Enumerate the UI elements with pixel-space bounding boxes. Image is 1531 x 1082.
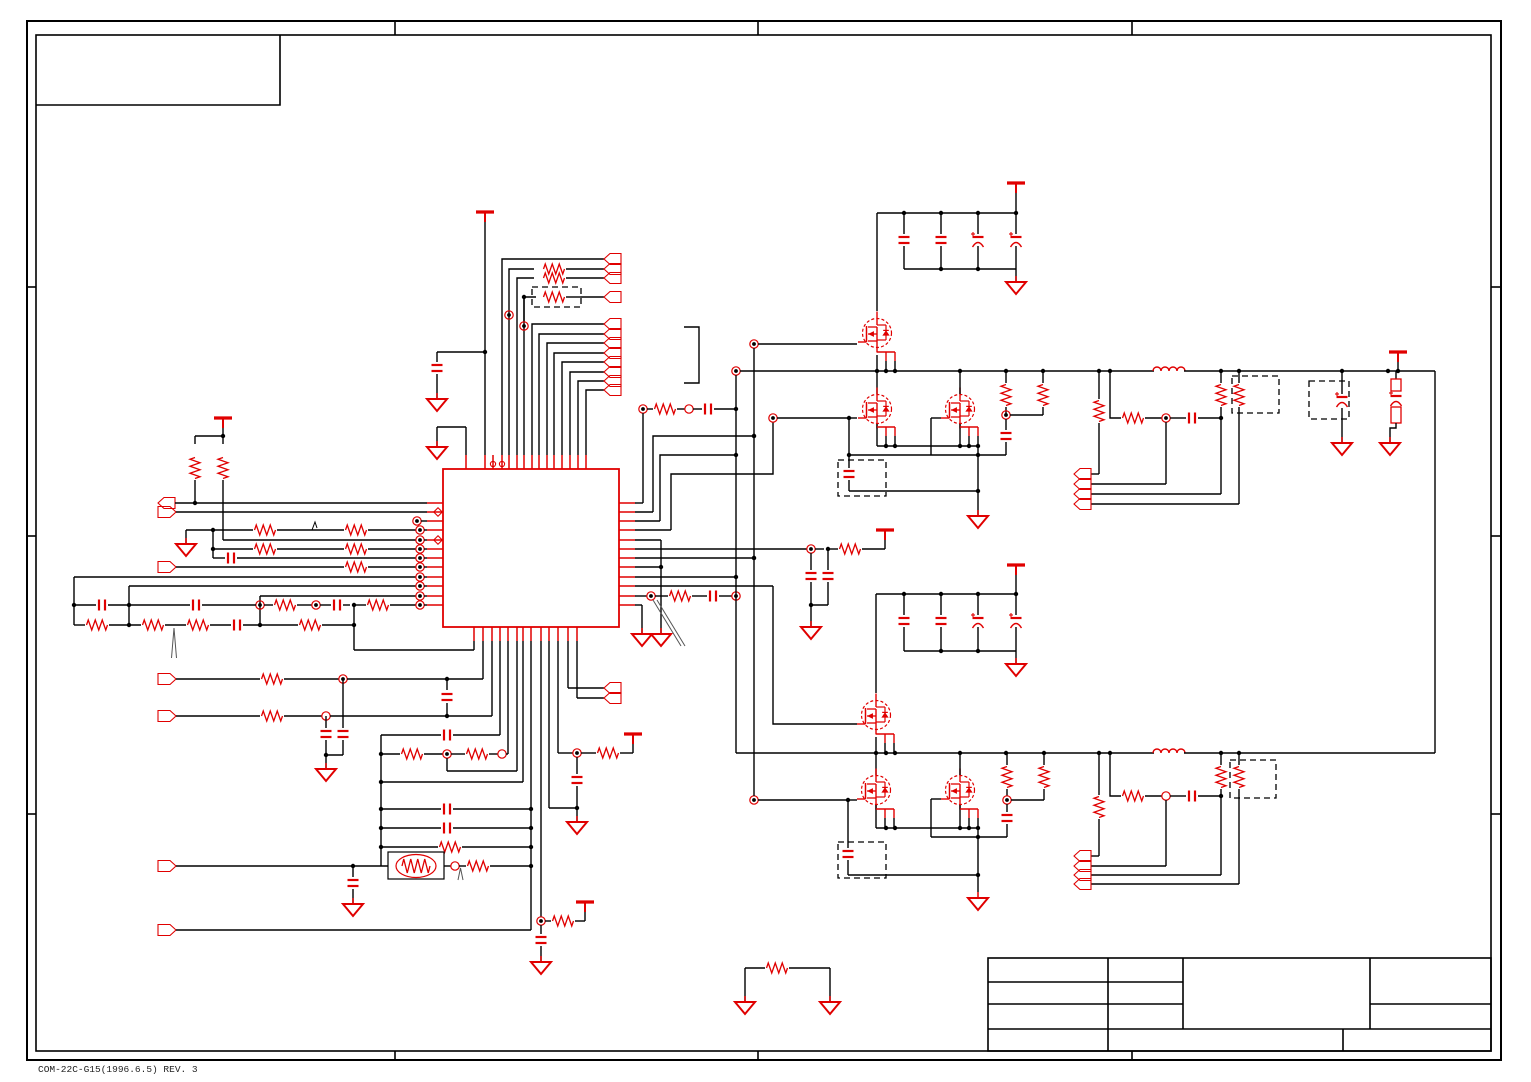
svg-text:COM-22C-G15(1996.6.5) REV. 3: COM-22C-G15(1996.6.5) REV. 3 xyxy=(38,1064,198,1075)
